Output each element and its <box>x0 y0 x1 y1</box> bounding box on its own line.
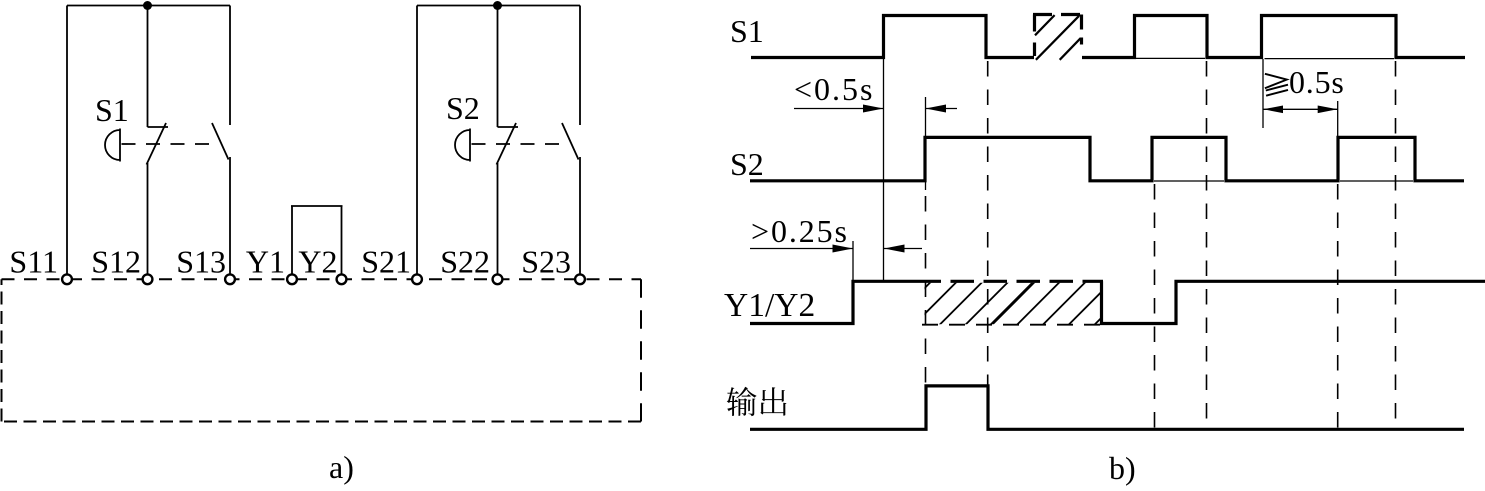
svg-text:<0.5s: <0.5s <box>794 71 875 107</box>
contact NC S1 moving <box>147 123 167 165</box>
wire S13 lower <box>229 157 231 274</box>
annotation >=0.5s arrowhead right-pointing <box>1318 106 1338 114</box>
wire Y2 vertical <box>341 206 343 274</box>
terminal S23 <box>575 274 585 284</box>
svg-text:S21: S21 <box>361 244 411 280</box>
trace 输出 output <box>750 386 1464 429</box>
annotation >0.25s arrowhead right-pointing <box>833 245 854 253</box>
annotation >0.25s arrowhead left-pointing <box>884 245 905 253</box>
svg-text:S2: S2 <box>446 90 480 126</box>
S1 hatched pulse left edge dashed <box>1033 15 1036 57</box>
extension line at 1337.7 upper <box>1337 101 1339 137</box>
extension line S1 rise (long) <box>883 59 885 281</box>
terminal S22 <box>493 274 503 284</box>
trace S2 <box>750 137 1464 180</box>
terminal Y2 <box>337 274 347 284</box>
contact NC S2 moving <box>497 123 517 165</box>
dashed vertical at S1 fall 988 <box>987 61 989 386</box>
svg-text:S1: S1 <box>95 92 129 128</box>
linkage S1 dashed <box>122 143 220 145</box>
annotation >=0.5s symbol geq drawn <box>1265 74 1288 96</box>
Y1/Y2 hatch bottom dashed <box>922 324 1102 326</box>
svg-text:S1: S1 <box>730 13 764 49</box>
extension line S1 pulse3 rise <box>1262 59 1264 128</box>
terminal S12 <box>143 274 153 284</box>
S2 thin baseline under pulse3 <box>1340 180 1413 182</box>
extension line S2 rise (short) <box>925 97 927 190</box>
S2 thin baseline under pulse2 <box>1154 180 1224 182</box>
svg-text:S13: S13 <box>176 244 226 280</box>
contact NO S2 moving <box>562 123 579 160</box>
svg-text:a): a) <box>329 449 354 485</box>
trace Y1/Y2 top dashed <box>951 280 1104 283</box>
wire S23 upper <box>579 6 581 126</box>
wire top rail S1 <box>67 5 230 7</box>
wire S13 upper <box>229 6 231 126</box>
terminal S13 <box>225 274 235 284</box>
svg-text:Y2: Y2 <box>298 244 337 280</box>
S1 hatched pulse top edge dashed <box>1033 13 1083 16</box>
svg-text:S22: S22 <box>440 244 490 280</box>
S1 hatch line 2 <box>1036 16 1079 60</box>
S1 hatched pulse right edge dashed <box>1080 15 1083 57</box>
annotation <0.5s arrow line left <box>794 108 884 110</box>
trace S1 left <box>751 16 1034 58</box>
svg-text:>0.25s: >0.25s <box>751 213 849 249</box>
wire S23 lower <box>579 157 581 274</box>
wire S11 vertical <box>66 6 68 275</box>
terminal S11 <box>62 274 72 284</box>
dashed vertical at S2 rise 926 <box>925 196 927 386</box>
trace Y1/Y2 right <box>1102 281 1485 323</box>
contact NC S2 fixed bar <box>498 126 519 128</box>
trace S1 right <box>1082 16 1465 58</box>
trace Y1/Y2 left <box>750 281 941 323</box>
svg-text:0.5s: 0.5s <box>1289 64 1345 100</box>
Y1/Y2 hatch group <box>888 282 1138 326</box>
dashed vertical at S1 pulse2 fall 1206 <box>1206 61 1208 429</box>
wire Y1-Y2 jumper bar <box>291 205 343 207</box>
svg-text:Y1/Y2: Y1/Y2 <box>724 287 815 324</box>
wire top rail S2 <box>417 5 580 7</box>
wire S22 upper <box>497 6 499 128</box>
annotation >0.25s tail line <box>884 248 922 250</box>
actuator S1 <box>105 129 120 162</box>
svg-text:S11: S11 <box>9 244 58 280</box>
S1 thin baseline under pulse2 <box>1136 57 1205 59</box>
S1 hatch line 3 <box>1060 38 1081 60</box>
actuator S2 <box>455 129 470 162</box>
wire S22 lower <box>497 163 499 274</box>
terminal S21 <box>412 274 422 284</box>
terminal Y1 <box>287 274 297 284</box>
wire S12 lower <box>147 163 149 274</box>
dashed enclosure box bottom edge <box>2 421 642 423</box>
dashed enclosure box right edge <box>640 279 642 421</box>
extension line Y1Y2 rise <box>852 241 854 281</box>
annotation <0.5s arrowhead left-pointing <box>926 105 947 113</box>
svg-text:Y1: Y1 <box>246 244 285 280</box>
S1 thin baseline under pulse3 <box>1265 58 1395 60</box>
annotation >0.25s arrow line left <box>750 248 853 250</box>
svg-text:S12: S12 <box>91 244 141 280</box>
dashed vertical at S1 pulse3 fall 1396 <box>1395 61 1397 429</box>
svg-text:b): b) <box>1109 450 1136 486</box>
annotation <0.5s arrowhead right-pointing <box>863 105 884 113</box>
contact NC S1 fixed bar <box>148 126 169 128</box>
dashed vertical at S2 pulse2 rise 1154 <box>1154 184 1156 429</box>
dashed vertical at S2 pulse3 rise 1338 <box>1337 184 1339 429</box>
wire Y1 vertical <box>291 206 293 274</box>
dashed enclosure box top edge <box>2 278 642 280</box>
annotation <0.5s tail line <box>926 108 958 110</box>
dashed enclosure box left edge <box>1 279 3 421</box>
node junction dot S1 <box>143 1 152 10</box>
svg-text:S23: S23 <box>521 244 571 280</box>
S1 hatch line 1 <box>1035 15 1055 35</box>
wire S12 upper <box>147 6 149 128</box>
contact NO S1 moving <box>212 123 229 160</box>
wire S21 vertical <box>416 6 418 275</box>
svg-text:S2: S2 <box>730 146 764 182</box>
annotation >=0.5s dimension line <box>1263 108 1337 110</box>
node junction dot S2 <box>493 1 502 10</box>
linkage S2 dashed <box>472 143 570 145</box>
annotation >=0.5s arrowhead left-pointing <box>1263 106 1283 114</box>
label 输出 (drawn glyphs) <box>727 387 787 416</box>
